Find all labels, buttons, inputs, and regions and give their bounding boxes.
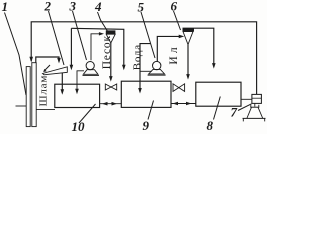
arrow onto shaker screen (57, 58, 61, 64)
svg-text:7: 7 (231, 105, 238, 120)
arrow into well annulus (29, 57, 33, 63)
svg-text:1: 1 (2, 0, 9, 14)
leader line 9 (148, 101, 154, 120)
svg-text:10: 10 (72, 119, 86, 134)
leader line 1 (5, 13, 27, 96)
pump 5 suction connection (140, 70, 152, 72)
valve between tanks 9 and 8 (173, 84, 179, 92)
arrow into tank 10 (left) (61, 89, 65, 95)
suction pipe from tank 10 to well (36, 109, 55, 111)
pump 5: base (149, 69, 165, 74)
pump 5: casing circle (153, 61, 161, 69)
pump 3: casing circle (86, 62, 94, 70)
pump 7: body box (252, 94, 262, 103)
svg-text:Ил: Ил (168, 44, 180, 64)
pump 3 discharge riser to header (91, 34, 102, 60)
water arrow into tank 9 area (122, 65, 126, 71)
pump 3: base (83, 70, 98, 75)
pump 5 discharge to cyclone 6 (157, 36, 182, 61)
pump 7 stand (254, 103, 256, 106)
svg-text:8: 8 (207, 118, 214, 133)
transfer line tank9-tank8 (171, 103, 196, 105)
svg-text:Шлам: Шлам (38, 75, 50, 107)
outer return pipe: top run (31, 22, 256, 95)
pump 3 suction from tank 10 (77, 71, 84, 93)
cyclone 6 overflow to tank 8 (183, 28, 214, 66)
leader line 2 (49, 11, 65, 65)
svg-text:Вода: Вода (132, 44, 144, 70)
leader line 10 (79, 104, 96, 123)
cyclone 6 underflow pipe (187, 45, 189, 78)
well 1: outer tube (26, 67, 30, 127)
ground stub left of well (16, 105, 27, 107)
overflow header pipe (71, 28, 123, 68)
tank 10 (55, 84, 100, 107)
svg-text:9: 9 (143, 118, 150, 133)
leader line 8 (214, 97, 221, 120)
tank 9 (121, 81, 171, 107)
leader line 3 (73, 11, 87, 60)
well 1: inner tube (32, 63, 36, 127)
leader line 5 (141, 12, 155, 58)
hydrocyclone 6: top body (filled) (183, 28, 195, 31)
hydrocyclone 4: top body (filled) (106, 30, 116, 34)
shlam discharge arrow (45, 65, 51, 71)
transfer line tank10-tank9 (100, 103, 122, 105)
leader line 7 (238, 104, 252, 111)
leader line 4 (98, 12, 110, 34)
water branch to pump 5 (140, 44, 151, 92)
svg-text:2: 2 (44, 0, 52, 14)
svg-text:4: 4 (94, 0, 102, 14)
tank 8 (196, 82, 241, 106)
recycle line to shaker: drop with arrow (70, 28, 72, 68)
shaker 2: inclined screen wedge (43, 67, 68, 75)
cyclone 4 underflow pipe (110, 43, 112, 80)
pump 7 suction stub from tank 8 (241, 98, 252, 100)
leader line 6 (174, 11, 181, 30)
hydrocyclone 6: cone (183, 32, 193, 45)
valve between tanks 10 and 9 (105, 84, 111, 90)
shaker underflow drop into tank 10 (61, 73, 63, 93)
hydrocyclone 4: cone (106, 34, 115, 43)
riser from well to shaker (36, 57, 59, 63)
